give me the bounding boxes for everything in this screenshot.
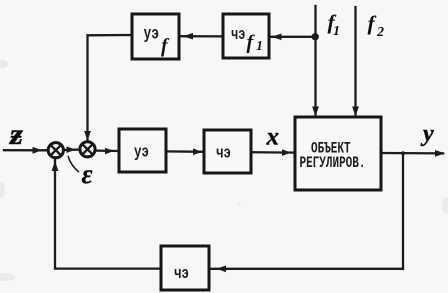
svg-text:уэ: уэ <box>134 144 149 162</box>
svg-text:уэ: уэ <box>144 24 160 44</box>
svg-text:чэ: чэ <box>174 266 189 284</box>
svg-text:ƶ: ƶ <box>9 118 23 151</box>
svg-text:ε: ε <box>82 159 93 189</box>
svg-text:чэ: чэ <box>216 145 231 163</box>
svg-text:x: x <box>266 124 280 151</box>
svg-text:РЕГУЛИРОВ.: РЕГУЛИРОВ. <box>300 156 366 173</box>
svg-text:1: 1 <box>333 24 340 39</box>
svg-text:y: y <box>420 121 434 147</box>
svg-text:1: 1 <box>256 39 263 54</box>
svg-text:чэ: чэ <box>231 27 245 45</box>
svg-text:2: 2 <box>376 25 384 40</box>
